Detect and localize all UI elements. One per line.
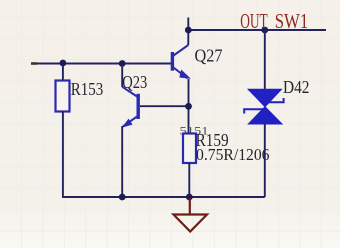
svg-text:0.75R/1206: 0.75R/1206	[196, 145, 270, 164]
wire: stub above OUT junction	[187, 18, 189, 31]
svg-text:SW1: SW1	[275, 9, 309, 33]
wire: Q23 emitter lead down to bottom rail	[121, 126, 123, 197]
wire: D42 bottom lead down to bottom rail	[264, 124, 266, 198]
wire: bottom ground rail	[62, 196, 265, 198]
wire: R153 top lead	[62, 63, 64, 81]
transistor Q23	[122, 87, 138, 127]
wire: Q23 base to R159 net	[140, 105, 189, 107]
node: junction R159/ground on bottom rail	[186, 194, 193, 201]
node: junction above R153	[60, 60, 67, 67]
transistor Q27	[172, 45, 189, 79]
wire: R153 bottom lead down to bottom rail	[62, 112, 64, 198]
resistor R153	[56, 81, 70, 112]
wire: Q23 collector lead	[121, 64, 123, 88]
svg-text:OUT: OUT	[240, 9, 268, 33]
node: junction on top-left net above Q23	[119, 60, 126, 67]
ground GND symbol	[174, 198, 208, 232]
wire: OUT SW1 top rail	[188, 29, 326, 31]
svg-text:D42: D42	[283, 77, 310, 97]
svg-text:R153: R153	[71, 79, 104, 99]
node: junction at D42 on OUT rail	[261, 27, 268, 34]
wire: D42 top lead	[264, 30, 266, 90]
wire: left end tick	[31, 62, 37, 65]
svg-text:Q27: Q27	[195, 45, 223, 65]
resistor R159	[183, 134, 196, 164]
wire: left net horizontal to Q27 base	[32, 63, 172, 65]
wire: Q27 emitter lead down	[188, 79, 190, 134]
svg-text:Q23: Q23	[122, 72, 147, 92]
wire: Q27 collector lead up to OUT rail	[187, 30, 189, 45]
node: junction Q23 base / Q27 emitter / R159	[185, 103, 192, 110]
wire: R159 bottom lead	[188, 163, 190, 197]
node: junction Q23 emitter on bottom rail	[119, 194, 126, 201]
diode D42 (bidirectional TVS)	[244, 90, 283, 124]
node: junction at Q27 collector on OUT rail	[185, 27, 192, 34]
